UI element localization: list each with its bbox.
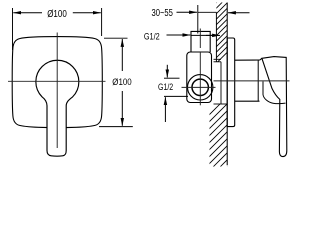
dimension Ø100 right: extension line bottom [99, 126, 133, 128]
svg-text:G1/2: G1/2 [158, 82, 173, 93]
dimension Ø100 right: extension line top [104, 37, 128, 39]
dimension 30~55: extension line at valve axis [197, 5, 199, 34]
lever handle side profile [262, 57, 287, 157]
leader continuation through stub [191, 34, 213, 36]
valve body (rounded) [187, 52, 212, 103]
handle keyhole: circle + lever blade outline [36, 60, 79, 156]
dimension 30~55: left arrow [177, 11, 198, 13]
sleeve tube vertical [220, 62, 222, 104]
G1/2 bottom dimension: top tangent line [164, 77, 180, 79]
dimension Ø100 right: down arrow [121, 91, 123, 126]
escutcheon plate (front, squircle) [12, 37, 102, 128]
dimension Ø100 top: right arrow [73, 12, 101, 14]
sleeve step upper line [214, 58, 222, 60]
dimension Ø100 top: extension line right [101, 8, 103, 36]
inlet stub (top G1/2 connection) [191, 31, 210, 52]
outlet port outer circle [188, 75, 213, 100]
dimension Ø100 top: left arrow [13, 12, 42, 14]
cartridge axis centerline [214, 80, 290, 82]
svg-text:30~55: 30~55 [151, 8, 173, 19]
outlet port inner (thread) circle [192, 79, 208, 95]
wall hatching top section [207, 0, 232, 73]
second arrow to wall [206, 34, 220, 36]
wall hatching bottom section [200, 92, 232, 194]
dimension 30~55: right arrow [228, 12, 250, 14]
G1/2 top leader arrow to inlet stub [167, 34, 191, 36]
G1/2 bottom dimension: up arrow [164, 97, 166, 122]
svg-text:G1/2: G1/2 [144, 31, 160, 42]
handle hub bottom edge [235, 100, 260, 102]
svg-text:Ø100: Ø100 [112, 77, 131, 88]
G1/2 bottom dimension: down arrow [166, 65, 168, 78]
svg-text:Ø100: Ø100 [47, 9, 67, 20]
lever far-side blade edge [263, 82, 286, 104]
dimension Ø100 right: up arrow [121, 39, 123, 71]
handle hub end cap [257, 60, 259, 101]
port vertical centerline [199, 52, 201, 105]
wall left boundary line (top) [215, 12, 217, 62]
sleeve step lower line [214, 61, 222, 63]
G1/2 bottom dimension: bottom tangent line [164, 95, 188, 97]
horizontal centerline of plate [8, 80, 106, 82]
handle hub top edge [235, 58, 262, 60]
dimension 30~55: line across wall [198, 11, 217, 13]
stub centerline [199, 29, 201, 49]
escutcheon plate side view [227, 38, 235, 127]
sleeve bottom line [214, 103, 228, 105]
wall face line (finished surface) [226, 3, 228, 166]
dimension Ø100 top: extension line left [12, 8, 14, 50]
port horizontal centerline [182, 86, 216, 88]
vertical centerline of plate [56, 33, 58, 149]
